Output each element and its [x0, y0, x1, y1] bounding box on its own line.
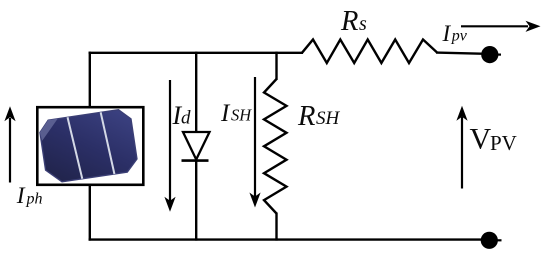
svg-text:SH: SH	[231, 106, 252, 125]
svg-text:I: I	[442, 21, 452, 46]
svg-text:PV: PV	[490, 131, 517, 155]
bottom terminal stub	[489, 239, 502, 241]
svg-text:R: R	[297, 101, 315, 132]
arrow Vpv	[456, 106, 467, 189]
svg-text:I: I	[220, 100, 231, 127]
svg-text:V: V	[470, 123, 492, 156]
resistor Rsh zigzag	[264, 79, 287, 214]
photocurrent source box	[37, 107, 143, 185]
top terminal stub	[490, 53, 501, 55]
wire Rs to top terminal	[436, 53, 486, 54]
resistor Rs zigzag	[302, 40, 437, 64]
top terminal node	[481, 46, 498, 63]
resistor Rsh branch wire lower	[275, 213, 277, 241]
svg-text:pv: pv	[451, 28, 468, 45]
diode D1	[182, 132, 210, 161]
bottom terminal node	[481, 232, 498, 249]
wire top horizontal (node A to Rs)	[89, 52, 303, 54]
arrow Id	[164, 80, 175, 212]
diode branch wire lower	[195, 161, 197, 241]
svg-text:s: s	[359, 13, 367, 35]
wire left vertical lower	[89, 185, 91, 241]
svg-text:d: d	[181, 108, 191, 129]
wire bottom horizontal	[89, 238, 484, 240]
svg-text:I: I	[16, 183, 26, 209]
arrow Ipv	[461, 21, 541, 32]
diode D1 branch wire upper	[195, 52, 197, 133]
svg-text:SH: SH	[316, 108, 341, 129]
solar cell photo	[38, 108, 138, 184]
arrow Ish	[249, 77, 260, 208]
svg-text:ph: ph	[26, 191, 43, 208]
wire left vertical upper	[89, 52, 91, 107]
resistor Rsh branch wire upper	[275, 52, 277, 80]
svg-text:R: R	[340, 6, 358, 37]
arrow Iph	[4, 106, 15, 182]
